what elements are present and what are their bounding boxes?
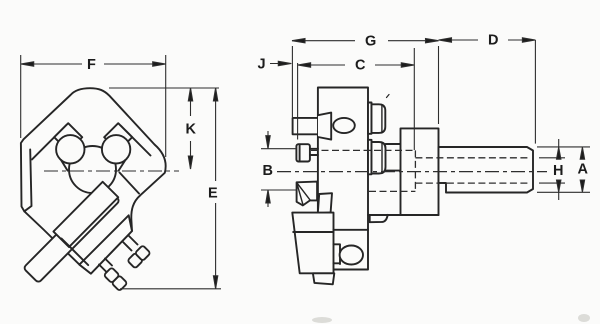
- svg-text:D: D: [488, 33, 498, 49]
- right groove seat line: [119, 160, 126, 171]
- small clamp bolt head: [296, 144, 310, 161]
- svg-text:C: C: [355, 58, 366, 74]
- slanted block: [318, 193, 332, 213]
- bolt bar A: [23, 186, 120, 284]
- svg-text:A: A: [578, 162, 589, 178]
- plate lower internal line: [334, 229, 369, 231]
- svg-text:K: K: [186, 122, 197, 138]
- top hex nut washer: [368, 103, 372, 134]
- lower nut facet rear: [112, 275, 128, 291]
- upper nut facet SW: [127, 253, 143, 269]
- left band inner edge: [32, 125, 67, 159]
- eyebolt eye ellipse: [333, 118, 355, 133]
- right band inner edge: [121, 126, 151, 156]
- thread root bottom: [415, 182, 529, 184]
- left corner strip inner edge: [24, 150, 31, 212]
- eyebolt flare: [318, 113, 331, 140]
- svg-text:J: J: [258, 57, 266, 73]
- main plate: [318, 88, 368, 270]
- clamp body outline: [21, 88, 166, 273]
- svg-text:H: H: [553, 163, 563, 179]
- C dimension: [413, 48, 415, 150]
- right cap square: [104, 123, 132, 151]
- upper stud: [123, 236, 138, 251]
- lower nut facet front: [104, 267, 120, 283]
- left hook disc: [56, 135, 84, 163]
- top stud tick: [387, 95, 390, 98]
- K dimension: [190, 88, 192, 116]
- notch step: [334, 244, 341, 264]
- lower eye ellipse: [340, 246, 363, 265]
- F dimension: [20, 55, 22, 138]
- scan smudges: [312, 314, 590, 323]
- keeper plate B: [53, 182, 118, 247]
- svg-text:F: F: [87, 57, 96, 73]
- E dimension: [215, 88, 217, 289]
- hidden hole end vertical: [414, 150, 416, 191]
- cylindrical block: [401, 128, 439, 215]
- top hex nut: [372, 104, 386, 133]
- hidden bolt/hole top line: [311, 149, 415, 151]
- stud washer band: [79, 215, 132, 273]
- svg-text:E: E: [208, 186, 218, 202]
- centerline of left view: [44, 170, 179, 172]
- H/A extension lines: [537, 146, 590, 148]
- foot: [313, 273, 334, 284]
- svg-text:B: B: [263, 163, 273, 179]
- centerline right view: [277, 171, 547, 173]
- left groove seat line: [61, 160, 68, 171]
- stud shaft between nut and block: [386, 144, 401, 171]
- left cap square: [54, 123, 82, 151]
- G dimension: [291, 46, 293, 117]
- E bottom extension line: [120, 288, 221, 290]
- K/E top extension line: [109, 87, 219, 89]
- keeper wedge: [297, 182, 318, 206]
- eyebolt head: [293, 118, 318, 134]
- bolt shaft: [310, 149, 318, 155]
- hidden hole bottom line: [369, 190, 415, 192]
- lower stud: [99, 259, 112, 272]
- A dimension: [580, 147, 584, 159]
- thread root top: [415, 157, 529, 159]
- central circle (conductor boss): [69, 146, 116, 193]
- G/D shared extension: [438, 46, 440, 124]
- lower-left block: [292, 213, 333, 274]
- small tab below: [370, 215, 388, 222]
- hidden/dashed lines right view: [277, 150, 547, 191]
- H dimension: [558, 139, 560, 200]
- svg-text:G: G: [365, 34, 376, 50]
- bottom line of assembly: [368, 214, 439, 216]
- D dimension: [534, 40, 536, 144]
- lower-right web line: [120, 173, 140, 194]
- threaded stud with base notch: [439, 147, 534, 193]
- bolt washer: [62, 239, 89, 266]
- right hook disc: [102, 135, 130, 163]
- B dimension: [261, 148, 297, 150]
- mid hex nut: [372, 142, 386, 174]
- block internal line: [293, 231, 333, 233]
- mid hex nut washer: [368, 140, 372, 175]
- upper nut facet NE: [135, 245, 151, 261]
- J leader arrow: [270, 63, 290, 65]
